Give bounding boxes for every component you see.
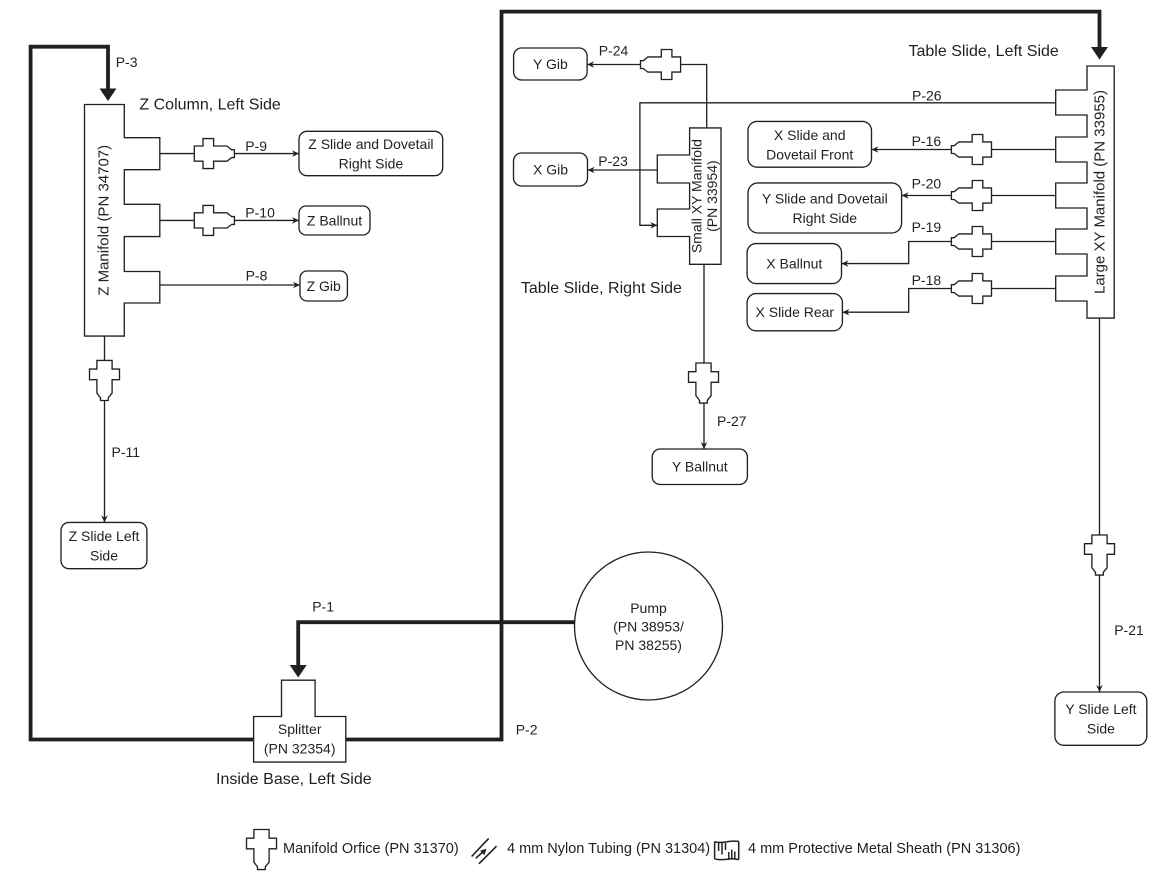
svg-text:Small XY Manifold: Small XY Manifold bbox=[689, 139, 705, 253]
svg-text:Manifold Orfice (PN 31370): Manifold Orfice (PN 31370) bbox=[283, 841, 459, 857]
svg-text:X Slide Rear: X Slide Rear bbox=[756, 304, 835, 320]
svg-text:Side: Side bbox=[90, 548, 118, 564]
arrowhead P-21 bbox=[1096, 685, 1103, 692]
svg-text:P-26: P-26 bbox=[912, 87, 942, 103]
svg-text:P-10: P-10 bbox=[245, 205, 275, 221]
wire P-18: large manifold port 5 to X Slide Rear bbox=[842, 289, 1055, 313]
wire P-23: small manifold port 1 to X Gib bbox=[588, 169, 658, 171]
box: X Ballnut bbox=[747, 244, 841, 284]
box: Z Ballnut bbox=[299, 206, 370, 235]
svg-text:Inside Base, Left Side: Inside Base, Left Side bbox=[216, 771, 372, 788]
svg-text:X Slide and: X Slide and bbox=[774, 127, 846, 143]
arrowhead P-20 bbox=[902, 192, 909, 199]
svg-text:P-21: P-21 bbox=[1114, 622, 1144, 638]
svg-text:X Gib: X Gib bbox=[533, 162, 568, 178]
arrowhead P-10 bbox=[292, 217, 299, 224]
svg-text:Z Ballnut: Z Ballnut bbox=[307, 213, 362, 229]
svg-text:Y Slide and Dovetail: Y Slide and Dovetail bbox=[762, 191, 888, 207]
svg-text:P-18: P-18 bbox=[912, 272, 942, 288]
svg-text:Y Gib: Y Gib bbox=[533, 56, 568, 72]
svg-text:4 mm Protective Metal Sheath (: 4 mm Protective Metal Sheath (PN 31306) bbox=[748, 841, 1020, 857]
arrowhead P-1 into splitter bbox=[290, 665, 307, 678]
wire P-20: large manifold port 3 to Y Slide and Dovetail Right Side bbox=[902, 195, 1056, 197]
orifice on P-21 bbox=[1085, 535, 1115, 575]
wire P-27: small manifold bottom to Y Ballnut bbox=[703, 264, 705, 449]
box: Y Gib bbox=[514, 48, 588, 80]
legend symbol: nylon tubing slashes bbox=[472, 838, 497, 863]
wire P-8: Z manifold port 3 to Z Gib bbox=[160, 284, 300, 286]
svg-text:P-24: P-24 bbox=[599, 42, 629, 58]
box: Z Slide Left Side bbox=[61, 522, 147, 568]
svg-text:Table Slide, Left Side: Table Slide, Left Side bbox=[909, 43, 1059, 60]
orifice on P-9 bbox=[194, 139, 234, 169]
arrowhead P-3 into Z manifold bbox=[100, 89, 117, 102]
Z manifold (PN 34707) body bbox=[85, 105, 160, 337]
svg-text:P-9: P-9 bbox=[245, 138, 267, 154]
svg-text:Table Slide, Right Side: Table Slide, Right Side bbox=[521, 280, 682, 297]
svg-text:Splitter: Splitter bbox=[278, 721, 322, 737]
svg-text:P-20: P-20 bbox=[912, 176, 942, 192]
svg-text:Z Column, Left Side: Z Column, Left Side bbox=[139, 97, 281, 114]
svg-text:P-8: P-8 bbox=[246, 268, 268, 284]
legend symbol: nylon tubing arrow bbox=[476, 851, 485, 859]
wire: main supply thick loop (splitter to both manifolds) bbox=[31, 12, 1100, 740]
box: X Gib bbox=[514, 153, 588, 186]
Large XY manifold (PN 33955) body bbox=[1056, 66, 1115, 318]
arrowhead P-18 bbox=[842, 309, 849, 316]
pump circle bbox=[575, 552, 723, 700]
arrowhead P-24 bbox=[587, 61, 594, 68]
wire: pump to splitter (P-1) thick bbox=[298, 622, 574, 665]
orifice on P-20 bbox=[951, 181, 991, 211]
wire P-10: Z manifold port 2 to Z Ballnut bbox=[160, 219, 299, 221]
svg-text:P-11: P-11 bbox=[112, 444, 141, 460]
arrowhead P-27 bbox=[701, 442, 708, 449]
svg-text:Z Manifold (PN 34707): Z Manifold (PN 34707) bbox=[95, 145, 112, 296]
box: Y Ballnut bbox=[652, 449, 747, 485]
svg-text:(PN 33954): (PN 33954) bbox=[704, 160, 720, 232]
svg-text:P-2: P-2 bbox=[516, 722, 538, 738]
wire P-9: Z manifold port 1 to Z Slide and Dovetail bbox=[160, 153, 299, 155]
legend orifice symbol bbox=[247, 830, 277, 870]
arrowhead P-26 bbox=[650, 222, 657, 229]
svg-text:Z Slide and Dovetail: Z Slide and Dovetail bbox=[308, 136, 433, 152]
wire P-24: small manifold top to Y Gib bbox=[587, 65, 707, 128]
arrowhead P-19 bbox=[842, 260, 849, 267]
svg-text:Right Side: Right Side bbox=[339, 156, 404, 172]
arrowhead P-9 bbox=[292, 150, 299, 157]
arrowhead P-16 bbox=[872, 146, 879, 153]
svg-text:Y Slide Left: Y Slide Left bbox=[1065, 701, 1136, 717]
svg-text:Right Side: Right Side bbox=[793, 210, 858, 226]
legend symbol: protective metal sheath bbox=[715, 841, 739, 860]
svg-text:Large XY Manifold (PN 33955): Large XY Manifold (PN 33955) bbox=[1092, 90, 1109, 294]
svg-text:P-1: P-1 bbox=[312, 599, 334, 615]
svg-text:Dovetail Front: Dovetail Front bbox=[766, 146, 853, 162]
svg-text:(PN 32354): (PN 32354) bbox=[264, 741, 336, 757]
box: Z Gib bbox=[300, 271, 347, 301]
box: Y Slide and Dovetail Right Side bbox=[748, 183, 902, 233]
orifice on P-19 bbox=[951, 227, 991, 257]
wire P-19: large manifold port 4 to X Ballnut bbox=[842, 242, 1056, 264]
svg-text:P-3: P-3 bbox=[116, 54, 138, 70]
svg-text:(PN 38953/: (PN 38953/ bbox=[613, 619, 684, 635]
arrowhead P-11 bbox=[101, 515, 108, 522]
arrowhead P-8 bbox=[293, 282, 300, 289]
wire P-26: large manifold port 1 to small manifold inlet bbox=[640, 103, 1056, 226]
box: Z Slide and Dovetail Right Side bbox=[299, 131, 443, 175]
svg-text:Pump: Pump bbox=[630, 600, 667, 616]
orifice on P-18 bbox=[951, 274, 991, 304]
box: X Slide and Dovetail Front bbox=[748, 121, 872, 167]
orifice on P-27 bbox=[689, 363, 719, 403]
orifice on P-24 bbox=[641, 50, 681, 80]
orifice on P-16 bbox=[951, 135, 991, 165]
arrowhead P-23 bbox=[588, 167, 595, 174]
svg-text:Z Gib: Z Gib bbox=[307, 278, 341, 294]
svg-text:X Ballnut: X Ballnut bbox=[766, 256, 822, 272]
Small XY manifold (PN 33954) body bbox=[657, 128, 721, 264]
svg-text:PN 38255): PN 38255) bbox=[615, 637, 682, 653]
orifice on P-11 bbox=[90, 360, 120, 400]
svg-text:4 mm Nylon Tubing (PN 31304): 4 mm Nylon Tubing (PN 31304) bbox=[507, 841, 710, 857]
svg-text:Side: Side bbox=[1087, 721, 1115, 737]
splitter (PN 32354) body bbox=[254, 680, 346, 762]
svg-text:P-27: P-27 bbox=[717, 413, 747, 429]
wire P-11: Z manifold bottom to Z Slide Left Side bbox=[104, 336, 106, 522]
svg-text:P-23: P-23 bbox=[598, 153, 628, 169]
svg-text:P-16: P-16 bbox=[912, 133, 942, 149]
box: Y Slide Left Side bbox=[1055, 692, 1147, 745]
svg-text:Y Ballnut: Y Ballnut bbox=[672, 459, 728, 475]
svg-text:Z Slide Left: Z Slide Left bbox=[69, 528, 140, 544]
svg-text:P-19: P-19 bbox=[912, 219, 942, 235]
orifice on P-10 bbox=[194, 205, 234, 235]
wire P-21: large manifold bottom to Y Slide Left Side bbox=[1099, 318, 1101, 692]
arrowhead into Large XY manifold bbox=[1091, 47, 1108, 60]
wire P-16: large manifold port 2 to X Slide and Dovetail Front bbox=[872, 149, 1056, 151]
box: X Slide Rear bbox=[747, 294, 842, 331]
